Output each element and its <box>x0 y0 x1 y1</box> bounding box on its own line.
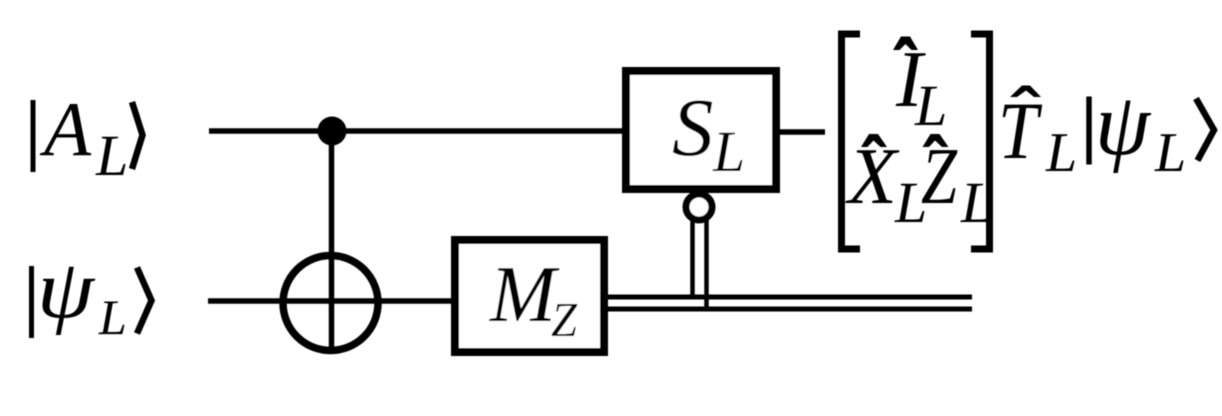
svg-text:T: T <box>998 85 1043 176</box>
svg-text:S: S <box>672 81 714 173</box>
svg-text:A: A <box>39 86 92 172</box>
svg-text:L: L <box>98 289 127 345</box>
svg-text:L: L <box>95 123 128 188</box>
svg-text:Z: Z <box>921 133 958 221</box>
svg-text:L: L <box>712 119 745 184</box>
svg-text:ψ: ψ <box>37 243 96 336</box>
svg-text:L: L <box>1045 122 1077 184</box>
svg-text:Z: Z <box>551 292 578 347</box>
svg-text:M: M <box>489 249 560 339</box>
svg-text:ψ: ψ <box>1095 76 1152 174</box>
svg-text:X: X <box>845 133 900 221</box>
svg-text:L: L <box>914 73 947 138</box>
svg-text:L: L <box>960 170 993 235</box>
svg-text:L: L <box>1154 122 1186 184</box>
